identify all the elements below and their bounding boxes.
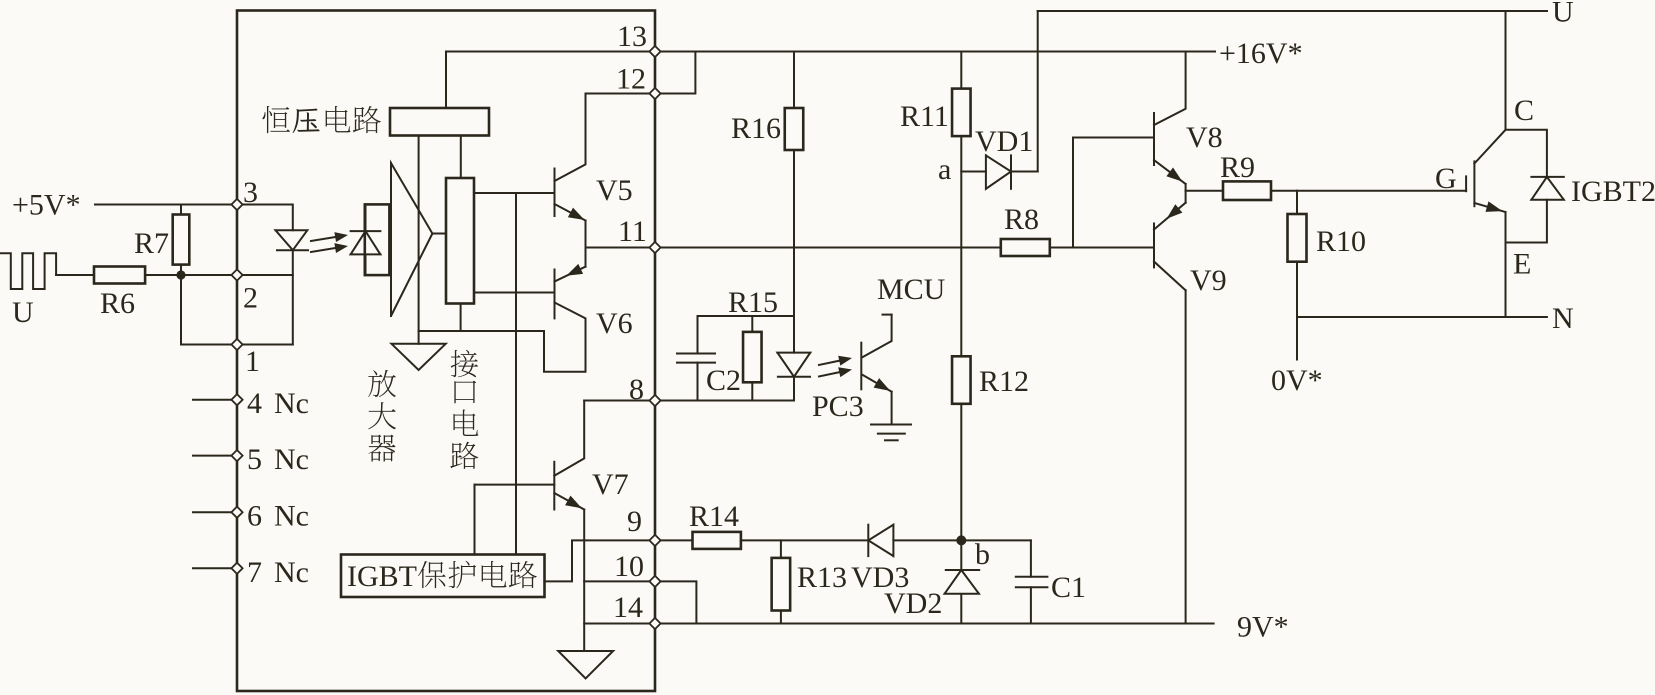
optocoupler PC3 LED cathode bar [778,376,810,378]
pin 4 Nc stub [193,399,231,401]
wire pin 10 external jog [655,581,696,623]
optocoupler light arrow 1 [311,237,335,241]
pin 2 terminal diamond [231,269,242,280]
optocoupler PC3 LED triangle [777,353,810,377]
svg-text:IGBT: IGBT [347,560,417,593]
IGBT2 channel bar [1473,161,1475,206]
wire R14 to VD3 [741,539,868,541]
photodiode lead [365,204,367,231]
svg-text:V9: V9 [1190,264,1227,297]
wire pin 13 internal [446,51,655,53]
constant-voltage circuit box 恒压电路 [390,108,489,136]
PC3 phototransistor collector [863,315,892,357]
wire 9V rail [655,623,1214,625]
wire pin 12 jog to +16V rail [655,52,695,94]
IC U1 (hybrid driver) outline [237,11,655,692]
wire IGBT2 emitter to N rail [1505,212,1507,317]
capacitor C2 plates [677,353,715,355]
wire pin 9 to R14 [655,539,693,541]
wire VD3 to node b [893,539,961,541]
svg-text:R11: R11 [900,100,949,133]
wire PC3 LED bottom lead [793,377,795,401]
IGBT2 collector [1474,11,1505,164]
transistor V7 base bar [553,462,555,510]
wire R16 top lead [793,52,795,109]
resistor R13 [772,558,791,611]
svg-text:13: 13 [617,20,647,53]
PC3 phototransistor base bar [860,343,862,390]
svg-text:a: a [938,153,951,186]
svg-text:9V*: 9V* [1237,611,1289,644]
pin 13 terminal diamond [649,46,660,57]
pin 9 terminal diamond [649,535,660,546]
wire R8 to V9 base [1050,247,1154,249]
svg-text:8: 8 [629,373,644,406]
resistor R15 [743,332,762,382]
svg-text:U: U [1552,0,1574,29]
svg-text:12: 12 [616,63,646,96]
wire constant-voltage box left lead [418,136,420,332]
wire node to R9 [1186,190,1223,192]
wire V6 emitter to node 11 [585,248,587,267]
svg-text:PC3: PC3 [812,390,864,423]
svg-text:R8: R8 [1004,203,1039,236]
wire common rail y331 [419,330,544,332]
svg-text:V7: V7 [592,468,629,501]
wire node 11 internal [586,247,656,249]
wire V9 collector to 9V rail [1185,290,1187,623]
wire V9 emitter to node [1185,191,1187,203]
svg-text:IGBT2: IGBT2 [1571,175,1655,208]
svg-text:7: 7 [247,556,262,589]
IGBT protection circuit box [341,555,545,598]
resistor R7 [173,215,190,265]
diode VD2 triangle [945,570,979,594]
wire V8 base riser [1073,138,1154,248]
pin 7 Nc stub [193,567,231,569]
wire LED cathode down to pin1 row [292,250,294,344]
transistor V5 emitter [555,204,586,221]
wire R10 bottom to N rail [1296,262,1298,317]
interface circuit box 接口电路 [446,178,474,304]
svg-text:E: E [1513,248,1531,281]
pin 6 Nc stub [193,511,231,513]
wire pin 12 internal [586,93,656,95]
svg-text:11: 11 [618,215,647,248]
wire R7 top lead [180,205,182,215]
wire R12 to node b [960,404,962,569]
transistor V9 base bar [1153,224,1155,268]
wire V6 base [474,292,555,294]
capacitor C1 top lead [1030,540,1032,576]
wire V7 base lead to protection box [474,485,476,555]
transistor V8 emitter [1154,160,1186,184]
photodiode bottom lead [365,254,367,275]
svg-text:10: 10 [614,550,644,583]
ground earth PC3 [871,424,911,426]
svg-text:VD2: VD2 [884,587,942,620]
label 放大器 [368,370,396,397]
transistor V5 base bar [554,169,556,217]
pin 14 terminal diamond [649,618,660,629]
freewheel diode cathode bar [1531,176,1563,178]
wire net U top rail [1038,10,1547,12]
svg-text:+16V*: +16V* [1219,37,1303,70]
wire VD1 cathode to U rail [1037,11,1039,172]
wire R15 top lead [751,316,753,332]
svg-text:R15: R15 [728,286,778,319]
resistor R12 [952,356,971,404]
photodiode triangle [351,231,381,254]
wire pin 14 internal [584,623,655,625]
transistor V8 collector [1154,52,1186,126]
svg-text:R10: R10 [1316,225,1366,258]
svg-text:4: 4 [247,387,262,420]
wire pin 8 external [655,400,794,402]
label 接口电路 [451,350,478,378]
resistor R9 [1223,181,1271,200]
pin 11 terminal diamond [649,242,660,253]
svg-text:+5V*: +5V* [12,189,81,222]
wire V8 emitter to node [1185,184,1187,191]
svg-text:Nc: Nc [274,500,309,533]
PC3 phototransistor emitter [863,375,892,392]
wire U to R6 [56,274,94,276]
svg-text:9: 9 [627,505,642,538]
resistor R16 [785,108,804,150]
capacitor C2 bottom lead [697,363,699,401]
resistor R14 [693,532,741,549]
photodiode cathode bar [351,230,381,232]
ground chassis IC bottom [558,651,613,679]
pin 1 terminal diamond [231,339,242,350]
wire R13 bottom lead [780,611,782,624]
pin 5 Nc stub [193,455,231,457]
optocoupler photodiode box [365,204,390,275]
svg-text:N: N [1552,302,1574,335]
pin 7 terminal diamond [231,563,242,574]
resistor R11 [952,89,971,137]
resistor R8 [1001,239,1050,256]
junction dot R6/R7 [176,270,185,279]
resistor R10 [1288,214,1307,262]
svg-text:C1: C1 [1051,571,1086,604]
svg-text:V6: V6 [596,307,633,340]
wire R11 to node a and R12 [960,136,962,356]
ground chassis below amplifier [418,331,420,344]
IGBT2 gate bar [1465,176,1467,191]
resistor R10 top lead [1296,191,1298,214]
diode VD3 triangle [868,525,893,556]
PC3 light arrow 1 [819,361,839,365]
wire V7 base [475,484,555,486]
wire R15/C2 top rail [698,315,795,317]
wire constant-voltage box top lead [445,52,447,109]
svg-text:R16: R16 [731,112,781,145]
wire +5V* to pin 3 [95,204,237,206]
wire VD1 to U-rail drop [1011,171,1038,173]
wire long vertical to protection box [515,193,517,555]
transistor V6 collector hook [544,303,586,372]
transistor V9 emitter [1154,203,1186,230]
pin 3 terminal diamond [231,199,242,210]
svg-text:2: 2 [243,282,258,315]
source U square-wave symbol [0,253,56,289]
transistor V7 emitter [554,493,584,510]
wire pin 1 internal [237,344,293,346]
svg-text:Nc: Nc [274,387,309,420]
wire interface box bottom lead [460,304,462,332]
svg-text:R9: R9 [1220,151,1255,184]
label 恒压电路 [262,106,290,133]
optocoupler light arrow 2 [311,248,335,252]
wire V5 emitter to node 11 [585,221,587,248]
wire junction to pin 1 [181,275,237,345]
wire R9 to gate G [1271,190,1466,192]
wire pin 3 internal to LED [237,205,293,231]
transistor V9 collector [1154,262,1186,291]
transistor V6 base bar [554,270,556,319]
wire pin 8 internal [584,400,655,402]
transistor V8 base bar [1153,113,1155,165]
svg-text:V8: V8 [1186,121,1223,154]
svg-text:G: G [1435,162,1457,195]
wire constant-voltage box right lead [460,136,462,179]
diode VD1 triangle [986,155,1011,188]
svg-text:14: 14 [613,591,643,624]
svg-text:R13: R13 [797,561,847,594]
wire VD2 bottom lead [960,595,962,624]
svg-text:0V*: 0V* [1271,364,1323,397]
wire R7 bottom lead [180,265,182,275]
svg-text:1: 1 [245,345,260,378]
wire PC3 emitter to ground [891,392,893,425]
IGBT2 emitter [1474,203,1505,212]
svg-text:R14: R14 [689,500,739,533]
svg-text:V5: V5 [596,174,633,207]
svg-text:5: 5 [247,443,262,476]
svg-text:3: 3 [243,176,258,209]
diode VD2 cathode bar [946,569,979,571]
freewheel diode triangle [1531,177,1563,200]
capacitor C1 bottom lead [1030,587,1032,623]
wire pin 10 internal [584,580,655,582]
capacitor C1 plates [1016,576,1048,578]
wire pin 11 to R8 [655,247,1001,249]
wire pin 2 internal [237,274,293,276]
pin 5 terminal diamond [231,450,242,461]
junction dot node b [956,535,966,545]
wire R11 top lead [960,52,962,89]
wire node a to VD1 [961,171,986,173]
wire V5 base [474,192,555,194]
svg-text:R7: R7 [134,227,169,260]
pin 4 terminal diamond [231,394,242,405]
wire node b to C1 [961,539,1031,541]
N rail [1297,316,1547,318]
svg-text:C2: C2 [706,364,741,397]
optocoupler LED cathode bar [277,249,308,251]
resistor R6 [94,267,145,284]
pin 10 terminal diamond [649,576,660,587]
wire 0V* stub [1296,317,1298,360]
capacitor C2 top lead [697,316,699,354]
svg-text:MCU: MCU [877,273,946,306]
wire amplifier output [432,233,446,235]
pin 8 terminal diamond [649,395,660,406]
amplifier triangle 放大器 [391,163,432,316]
transistor V7 collector [554,401,584,476]
resistor R13 top lead [780,540,782,558]
PC3 light arrow 2 [819,372,839,376]
svg-text:R6: R6 [100,287,135,320]
wire R16 bottom to PC3 LED [793,150,795,353]
transistor V5 collector [555,94,586,182]
wire R6 to pin 2 [145,274,237,276]
wire MCU stub tick [883,314,892,316]
wire protection box to pin 9 [545,540,656,581]
svg-text:b: b [975,538,990,571]
svg-text:U: U [12,296,34,329]
diode VD1 cathode bar [1010,155,1012,188]
wire +16V rail from pin 13 [655,51,1215,53]
diode VD3 cathode bar [867,525,869,556]
optocoupler LED anode triangle [276,230,308,250]
freewheel diode branch [1506,130,1547,177]
svg-text:C: C [1514,94,1534,127]
svg-text:VD1: VD1 [975,125,1033,158]
wire V7 emitter to ground [583,510,585,652]
svg-text:R12: R12 [979,365,1029,398]
svg-text:Nc: Nc [274,443,309,476]
svg-text:6: 6 [247,500,262,533]
svg-text:Nc: Nc [274,556,309,589]
transistor V6 emitter [555,267,586,282]
pin 6 terminal diamond [231,507,242,518]
pin 12 terminal diamond [649,88,660,99]
wire R15 bottom lead [751,382,753,400]
